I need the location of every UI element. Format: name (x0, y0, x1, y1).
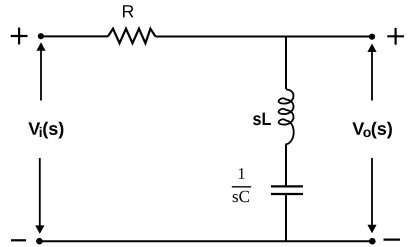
arrow up left (Vi + side) (36, 42, 45, 100)
label R (123, 5, 134, 17)
label 1/sC numerator (239, 168, 245, 179)
minus terminal bottom-right (384, 239, 401, 241)
plus terminal top-left (11, 28, 28, 45)
inductor L1 coil (279, 90, 294, 145)
arrow up right (Vo + side) (367, 44, 376, 101)
node top-right (dot) (369, 34, 375, 40)
plus terminal top-right (387, 28, 404, 45)
node bottom-left (dot) (36, 238, 43, 245)
minus terminal bottom-left (11, 239, 26, 241)
label 1/sC denominator (233, 191, 249, 203)
resistor R1 zigzag (108, 29, 155, 44)
label sL (253, 113, 271, 126)
label Vi(s) (28, 122, 63, 139)
arrow down right (Vo - side) (367, 158, 376, 233)
node top-left (dot) (38, 33, 44, 39)
wire top-right (resistor to right node) (155, 36, 372, 38)
wire top-left (node to resistor) (40, 35, 108, 37)
capacitor C1 bottom plate (271, 193, 303, 195)
node bottom-right (dot) (369, 238, 376, 245)
label 1/sC fraction bar (232, 186, 251, 188)
arrow down left (Vi - side) (35, 158, 44, 234)
wire inductor to capacitor (285, 144, 287, 187)
wire capacitor to bottom (285, 194, 287, 241)
wire bottom (39, 240, 372, 242)
wire branch top (junction to inductor) (285, 37, 287, 90)
capacitor C1 top plate (271, 185, 303, 187)
label Vo(s) (352, 122, 392, 139)
